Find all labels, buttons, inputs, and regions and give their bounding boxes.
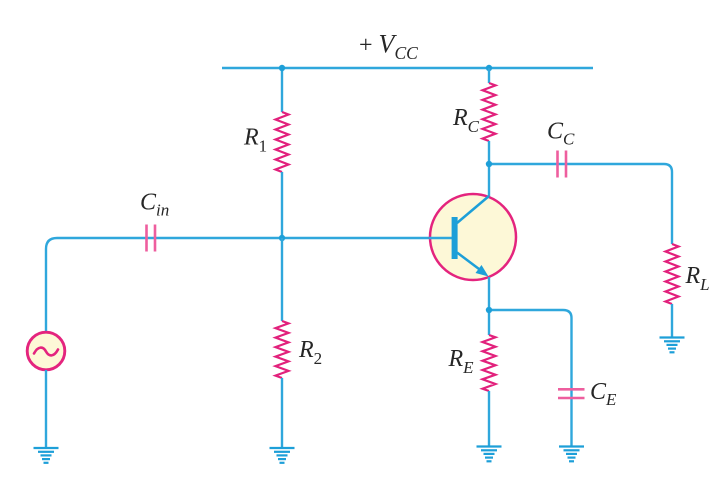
label CC [547, 119, 575, 149]
label R1 [243, 125, 267, 156]
ground: below R2 [270, 448, 295, 463]
AC signal source Vin [27, 332, 65, 370]
label CE [590, 379, 617, 409]
node: collector junction [486, 161, 492, 167]
resistor RC [483, 83, 496, 141]
wire: source bottom to ground [45, 370, 47, 448]
wire: RE bottom to ground [488, 391, 490, 447]
node: Vcc-RC junction [486, 65, 492, 71]
wire: base node down to R2 [281, 238, 283, 321]
transistor Q1 (NPN, circled) [429, 194, 516, 280]
wire: Vcc rail to RC top [488, 68, 490, 83]
node: emitter junction [486, 307, 492, 313]
resistor R1 [276, 112, 289, 172]
resistor RE [483, 335, 496, 391]
wire: emitter to emitter node and down to RE [488, 277, 490, 335]
label RL [685, 263, 710, 294]
capacitor Cin [147, 225, 156, 252]
ground: below CE [559, 447, 584, 462]
label +Vcc [359, 30, 418, 64]
resistor R2 [276, 321, 289, 378]
resistor RL [666, 244, 679, 304]
wire: +Vcc supply rail [222, 67, 593, 69]
wire: emitter node to CE branch [489, 310, 572, 446]
ground: below RL [660, 338, 685, 353]
wire: RL bottom to ground [671, 304, 673, 338]
wire: collector node to CC [489, 164, 672, 244]
ground: below RE [477, 447, 502, 462]
label RC [452, 105, 480, 136]
wire: input branch (source up, corner, horizontal base wire to transistor) [46, 238, 452, 333]
wire: RC bottom to collector [488, 141, 490, 197]
label RE [448, 346, 475, 377]
label R2 [298, 337, 322, 368]
wire: R1 bottom to base node [281, 172, 283, 238]
ground: below source [34, 448, 59, 463]
node: Vcc-R1 junction [279, 65, 285, 71]
wire: R2 bottom to ground [281, 378, 283, 448]
wire: Vcc rail to R1 top [281, 68, 283, 112]
label Cin [140, 190, 169, 220]
node: base junction (R1/R2/base wire) [279, 235, 285, 241]
capacitor CE [558, 389, 585, 398]
capacitor CC [558, 151, 567, 178]
